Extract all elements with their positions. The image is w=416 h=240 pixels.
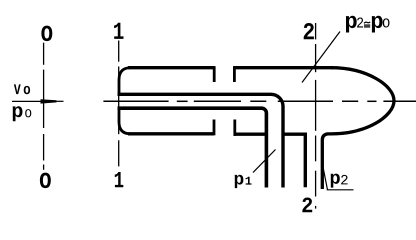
leader line and underline for p2: [323, 167, 354, 190]
outer tube left end upper edge: [119, 68, 130, 96]
label p of p1: [235, 175, 244, 188]
label 2 bottom: [302, 198, 312, 213]
outer tube bottom wall left segment: [128, 132, 214, 135]
label 0 subscript of p0: [25, 109, 31, 117]
label 2 subscript of p2: [341, 175, 348, 185]
label p of p2~p0: [346, 16, 357, 33]
outer tube bottom wall mid segment: [234, 132, 267, 135]
section line 0: [43, 43, 45, 170]
label 0 subscript of p2~p0: [383, 18, 390, 27]
label p of p0: [13, 106, 23, 121]
outer tube top wall right segment into nose: [234, 66, 334, 69]
section line 2: [315, 23, 317, 209]
label 1 subscript of p1: [246, 177, 252, 185]
label 0 bottom: [40, 173, 51, 189]
label p of p2: [331, 174, 340, 188]
inner tube bottom wall with bend to stem: [118, 108, 267, 187]
label p of p0 in p2~p0: [372, 16, 383, 33]
nose ellipse cap and right stem wall: [322, 68, 394, 189]
inner tube top wall with bend to stem: [118, 94, 284, 187]
leader line for p2~p0: [302, 32, 340, 83]
outer tube left end lower edge: [119, 107, 130, 134]
leader line for p1: [253, 150, 276, 173]
static hole tick top left: [213, 66, 216, 82]
outer tube top wall left segment: [128, 66, 215, 69]
outer channel ledge and left stem wall: [283, 134, 305, 187]
static hole tick bottom left: [213, 120, 216, 136]
label 1 bottom: [115, 172, 124, 187]
label 0 top: [41, 26, 52, 41]
section line 1: [118, 41, 120, 167]
label 1 top: [114, 23, 123, 39]
label 2 top: [304, 23, 314, 39]
static hole tick bottom right: [233, 120, 236, 136]
label 2 subscript of p2~p0: [357, 18, 363, 28]
label v of v0: [14, 84, 21, 94]
flow arrow v0: [12, 99, 64, 103]
label 0 subscript of v0: [24, 86, 30, 94]
static hole tick top right: [233, 66, 236, 82]
centerline (horizontal dash-dot axis): [103, 100, 416, 102]
approx-equal symbol in p2~p0: [364, 22, 370, 27]
